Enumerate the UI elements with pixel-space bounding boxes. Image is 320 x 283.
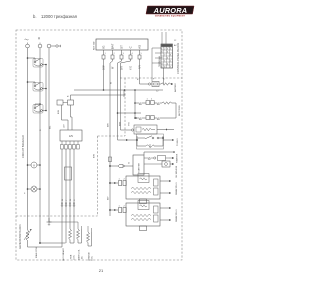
svg-text:12V: 12V bbox=[69, 135, 74, 138]
svg-text:R/Y: R/Y bbox=[139, 65, 142, 69]
svg-text:AS: AS bbox=[138, 45, 142, 49]
svg-text:V: V bbox=[33, 163, 35, 167]
open terminal to regulator bbox=[131, 129, 133, 131]
DC outlet box bbox=[60, 130, 82, 141]
svg-text:AURORA: AURORA bbox=[153, 6, 188, 15]
svg-text:Y/G: Y/G bbox=[128, 122, 130, 126]
charge coil L3 bbox=[77, 229, 82, 243]
circuit breaker CB3 bbox=[33, 89, 47, 114]
ignition branch junction 2 bbox=[109, 209, 118, 211]
branch x124 down bbox=[123, 90, 125, 97]
circuit breaker CB1 bbox=[27, 57, 47, 88]
key switch pin stubs and connectors bbox=[104, 50, 140, 55]
svg-text:MAIN COIL: MAIN COIL bbox=[78, 249, 81, 260]
svg-text:CIRCUIT BREAKER: CIRCUIT BREAKER bbox=[22, 135, 25, 158]
charge diodes bbox=[61, 203, 75, 206]
svg-text:b.: b. bbox=[33, 14, 37, 19]
earth arrow at generator top bbox=[47, 218, 52, 225]
svg-text:B/R: B/R bbox=[121, 66, 124, 70]
svg-text:B/W: B/W bbox=[103, 65, 106, 70]
4P connector bbox=[65, 167, 72, 180]
small connector on ignition wire bbox=[108, 157, 111, 162]
relay output arrow bbox=[163, 139, 174, 141]
wire main winding bottom bbox=[28, 242, 66, 247]
fuse F1 row bbox=[148, 79, 173, 93]
svg-text:GENERATOR BLOCK: GENERATOR BLOCK bbox=[19, 224, 22, 249]
diode wire labels bbox=[62, 199, 76, 201]
output terminal V bbox=[38, 43, 42, 48]
svg-text:12000 трехфазная: 12000 трехфазная bbox=[41, 14, 77, 19]
connector pair 2P no2 bbox=[119, 206, 127, 213]
coil1 wires to plug bbox=[160, 180, 171, 194]
svg-text:SPARK PLUG: SPARK PLUG bbox=[175, 209, 178, 222]
bus wire y95 bbox=[71, 95, 126, 100]
exciter coil L4 bbox=[87, 232, 92, 246]
terminal mark star bbox=[38, 37, 40, 39]
svg-text:KEY SW: KEY SW bbox=[94, 41, 96, 50]
svg-text:TERMINAL: TERMINAL bbox=[158, 55, 161, 67]
svg-text:SUB: SUB bbox=[71, 254, 73, 259]
junction dot IG bus bbox=[103, 89, 105, 91]
wire phase W vertical bbox=[48, 48, 50, 222]
aux box leads down bbox=[62, 105, 73, 130]
svg-text:COIL: COIL bbox=[92, 255, 94, 261]
svg-text:COIL: COIL bbox=[74, 254, 76, 260]
wire phase U vertical bbox=[27, 48, 29, 230]
DC connector strip bbox=[61, 145, 80, 150]
connector pins row bbox=[102, 55, 141, 59]
branch x135 down bbox=[134, 90, 136, 119]
terminal grid block TB1 bbox=[161, 44, 173, 69]
svg-text:BAT: BAT bbox=[111, 43, 115, 49]
svg-text:STARTER: STARTER bbox=[138, 163, 141, 173]
ignition coil T1 bbox=[126, 174, 160, 204]
relay K1 bbox=[136, 134, 164, 149]
terminal mark tilde bbox=[25, 39, 29, 40]
wire labels mid run bbox=[108, 78, 140, 127]
svg-text:3: 3 bbox=[123, 53, 124, 55]
grid wire down to fuse row bbox=[163, 68, 165, 84]
oil sensor connector bbox=[144, 161, 174, 167]
svg-text:5: 5 bbox=[141, 53, 142, 55]
starter solenoid rows bbox=[144, 151, 175, 160]
solenoid wire to engine bbox=[169, 157, 174, 159]
dashed partition horizontal y136 bbox=[98, 135, 126, 137]
svg-text:ST: ST bbox=[120, 45, 124, 49]
svg-text:DC: DC bbox=[82, 255, 84, 259]
svg-text:RECTIFIER: RECTIFIER bbox=[179, 105, 181, 116]
rectifier row D2 bbox=[135, 103, 176, 120]
regulator box U2 bbox=[134, 125, 174, 134]
coil labels bottom bbox=[62, 247, 94, 261]
svg-text:CONTROL PANEL BLOCK: CONTROL PANEL BLOCK bbox=[176, 43, 180, 74]
starter motor M1 bbox=[133, 155, 144, 175]
dashed partition generator block y216 bbox=[16, 215, 98, 217]
wire phase W elbow to coil B bbox=[49, 222, 92, 232]
output terminal U bbox=[26, 43, 30, 48]
strip stubs from box bbox=[62, 141, 78, 145]
rectifier row D1 bbox=[135, 99, 176, 105]
grid stub wires left bbox=[152, 48, 161, 81]
wire color labels under connectors bbox=[103, 65, 142, 70]
grid top stubs bbox=[162, 32, 166, 44]
key switch wires straight down bbox=[104, 59, 149, 216]
earth terminal stub bbox=[51, 45, 61, 47]
bus wire y90 bbox=[74, 89, 163, 91]
svg-text:BATTERY: BATTERY bbox=[174, 82, 177, 92]
arrow on relay feed bbox=[126, 139, 128, 141]
outer dashed border generator/control frame bbox=[16, 30, 182, 260]
svg-text:21: 21 bbox=[99, 268, 104, 273]
wire phase V vertical bbox=[39, 48, 41, 243]
svg-text:B/W: B/W bbox=[58, 110, 60, 114]
aux labels bbox=[58, 95, 70, 114]
svg-text:GENERATING EQUIPMENT: GENERATING EQUIPMENT bbox=[155, 14, 186, 17]
svg-text:MAIN COIL: MAIN COIL bbox=[35, 246, 38, 258]
AURORA logo badge bbox=[146, 6, 194, 18]
title: b. 12000 three-phase bbox=[33, 14, 77, 19]
svg-text:CHARGE: CHARGE bbox=[88, 251, 91, 261]
svg-text:TO ENG: TO ENG bbox=[177, 138, 179, 146]
sub coil L2 bbox=[69, 229, 75, 243]
svg-text:B/W: B/W bbox=[94, 154, 96, 158]
dashed partition vertical x96 bbox=[97, 136, 99, 216]
aux contact box left A bbox=[57, 100, 68, 105]
svg-text:B/Y: B/Y bbox=[108, 196, 110, 200]
voltmeter P1 bbox=[27, 162, 41, 168]
key switch box S1 bbox=[96, 39, 148, 50]
svg-text:W: W bbox=[62, 199, 64, 201]
svg-text:OIL SENSOR: OIL SENSOR bbox=[176, 165, 178, 178]
generator main winding G1 zigzag bbox=[24, 229, 32, 247]
circuit breaker CB2 bbox=[27, 81, 47, 91]
bus wire y113 bbox=[117, 112, 141, 114]
wires diodes to coils bbox=[62, 206, 74, 247]
dashed partition vertical x125 bbox=[124, 78, 126, 136]
svg-text:Y/G: Y/G bbox=[130, 66, 133, 70]
starter connector pair bbox=[109, 162, 133, 168]
svg-text:SPARK PLUG: SPARK PLUG bbox=[175, 182, 178, 195]
DC wires down bbox=[62, 149, 74, 203]
ignition branch junction 1 bbox=[109, 182, 118, 184]
dashed partition control panel bottom bbox=[120, 77, 182, 79]
svg-text:SECONDARY: SECONDARY bbox=[62, 247, 65, 261]
svg-text:1: 1 bbox=[105, 53, 106, 55]
aux contact box left B bbox=[68, 100, 74, 105]
pilot lamp H1 bbox=[27, 186, 41, 192]
output terminal W bbox=[47, 44, 51, 48]
svg-text:B/R: B/R bbox=[108, 123, 110, 127]
connector pair 2P no1 bbox=[119, 179, 127, 186]
svg-text:W: W bbox=[70, 199, 72, 201]
grid side labels bbox=[174, 40, 177, 47]
coil2 wires to plug bbox=[160, 207, 171, 221]
svg-text:2: 2 bbox=[114, 53, 115, 55]
svg-text:STARTER: STARTER bbox=[176, 153, 179, 163]
ignition coil T2 bbox=[126, 201, 160, 231]
svg-text:4: 4 bbox=[132, 53, 133, 55]
